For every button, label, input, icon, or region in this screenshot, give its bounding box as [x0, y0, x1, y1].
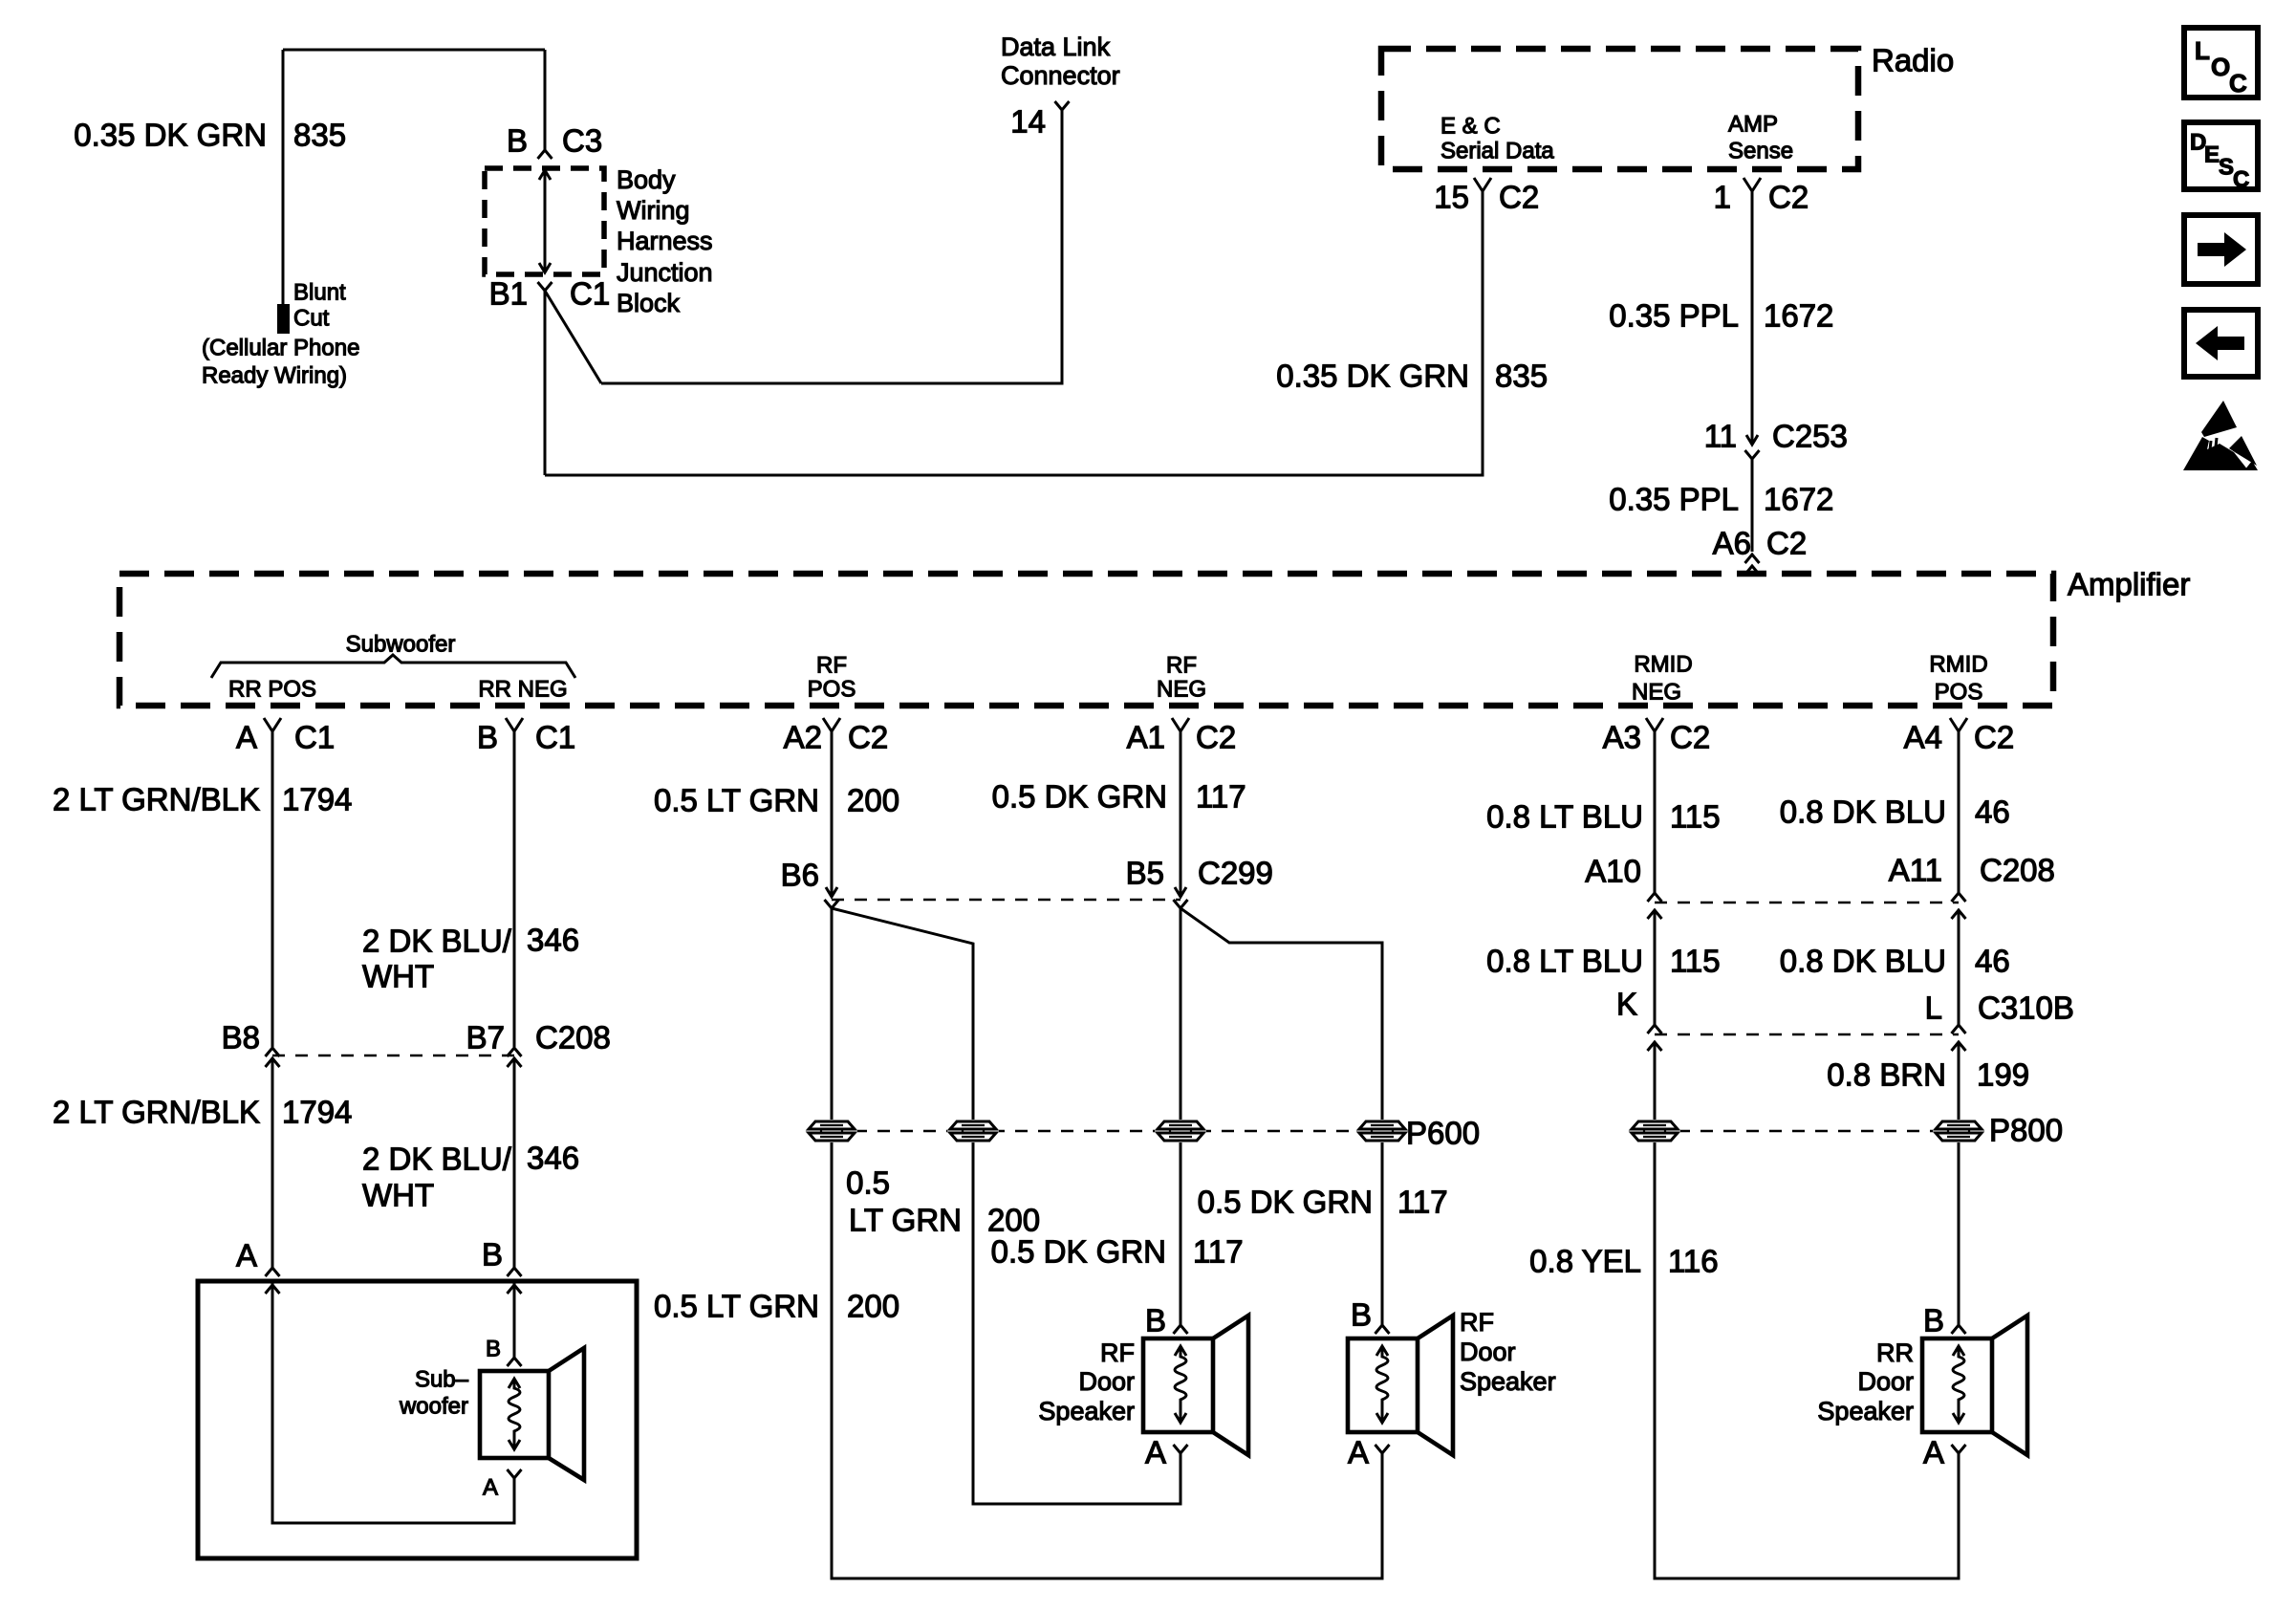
svg-text:RF: RF [1166, 653, 1197, 679]
svg-text:Speaker: Speaker [1817, 1397, 1914, 1425]
dashed connector line C310B [1655, 1033, 1959, 1035]
svg-text:C299: C299 [1198, 856, 1273, 891]
svg-text:C310B: C310B [1978, 990, 2074, 1026]
wire: AMP Sense 0.35 PPL lower [1751, 459, 1754, 552]
subwoofer driver box [480, 1371, 549, 1458]
RR speaker cone [1992, 1316, 2027, 1455]
svg-text:B5: B5 [1126, 856, 1164, 891]
svg-text:C: C [2229, 69, 2247, 98]
svg-text:A: A [1145, 1435, 1166, 1470]
subwoofer cone [549, 1348, 584, 1480]
subwoofer coil [509, 1381, 520, 1447]
Data Link Connector pin 14 fork [1055, 101, 1070, 110]
svg-text:B6: B6 [781, 858, 819, 893]
svg-text:835: 835 [1495, 359, 1548, 394]
svg-text:Serial Data: Serial Data [1440, 139, 1554, 164]
svg-text:0.5 DK GRN: 0.5 DK GRN [992, 779, 1167, 815]
svg-text:B: B [507, 123, 528, 159]
svg-text:O: O [2211, 53, 2230, 81]
svg-text:B: B [486, 1337, 501, 1362]
svg-text:RR NEG: RR NEG [478, 677, 567, 703]
svg-text:L: L [2195, 36, 2210, 65]
inline connector 11 C253 [1746, 435, 1758, 445]
wire: B1 down to radio feed [544, 291, 547, 475]
svg-text:2 LT GRN/BLK: 2 LT GRN/BLK [53, 782, 260, 817]
svg-text:LT GRN: LT GRN [849, 1203, 962, 1238]
svg-text:200: 200 [847, 1289, 899, 1324]
wire: AMP Sense 0.35 PPL upper [1751, 191, 1754, 445]
speaker 1 pin A fork [1174, 1445, 1188, 1453]
svg-text:0.8 LT BLU: 0.8 LT BLU [1486, 944, 1643, 979]
svg-text:0.5 LT GRN: 0.5 LT GRN [654, 1289, 819, 1324]
svg-text:C2: C2 [1768, 180, 1809, 215]
amp pin A4 C2 fork [1950, 718, 1967, 731]
inline connector L C310B [1952, 1025, 1966, 1033]
svg-text:1672: 1672 [1764, 482, 1833, 517]
svg-text:0.5 LT GRN: 0.5 LT GRN [654, 783, 819, 818]
grommet P600 wire 200 branch [947, 1120, 999, 1142]
radio pin 1 C2 fork [1744, 178, 1761, 191]
wire RR NEG 2 DK BLU/WHT upper [513, 731, 516, 1047]
svg-text:2 DK BLU/: 2 DK BLU/ [362, 1142, 512, 1177]
speaker 1 pin B fork [1174, 1325, 1188, 1334]
svg-text:0.8 BRN: 0.8 BRN [1827, 1057, 1946, 1093]
svg-text:C1: C1 [570, 276, 610, 312]
svg-text:NEG: NEG [1632, 680, 1681, 706]
inline connector B6 [826, 887, 837, 897]
svg-text:14: 14 [1010, 104, 1046, 140]
svg-text:RR POS: RR POS [228, 677, 316, 703]
svg-text:RR: RR [1876, 1338, 1914, 1367]
wire: diagonal B1 to DLC run [545, 291, 601, 383]
svg-text:Cut: Cut [293, 306, 330, 332]
svg-text:A: A [236, 1238, 257, 1273]
dashed connector line C208 (right) [1655, 902, 1959, 903]
wire RMID NEG 0.8 LT BLU mid [1654, 910, 1657, 1025]
svg-text:E & C: E & C [1440, 114, 1501, 140]
grommet P800 wire 116 [1629, 1120, 1680, 1142]
Radio dashed box [1381, 49, 1858, 169]
svg-text:346: 346 [527, 923, 579, 958]
svg-text:A: A [1348, 1435, 1369, 1470]
wire: drop to junction block pin B [544, 50, 547, 150]
wire RMID POS 0.8 DK BLU mid [1958, 910, 1960, 1025]
svg-text:117: 117 [1397, 1185, 1448, 1220]
svg-text:Block: Block [617, 289, 681, 317]
wire B6 branch to first RF speaker [832, 908, 1180, 1504]
svg-text:RMID: RMID [1634, 652, 1692, 678]
svg-text:C2: C2 [1670, 720, 1710, 755]
svg-text:0.35 DK GRN: 0.35 DK GRN [1276, 359, 1469, 394]
svg-text:RF: RF [1460, 1308, 1494, 1337]
svg-text:0.5 DK GRN: 0.5 DK GRN [1198, 1185, 1373, 1220]
svg-text:Sub–: Sub– [415, 1367, 469, 1393]
svg-text:Speaker: Speaker [1460, 1367, 1556, 1396]
speaker 2 box [1348, 1338, 1418, 1432]
wire B5 straight down 0.5 DK GRN [1180, 908, 1182, 1325]
svg-text:L: L [1925, 990, 1942, 1026]
amp pin A1 C2 fork [1172, 718, 1189, 731]
svg-text:RMID: RMID [1929, 652, 1987, 678]
brace [211, 655, 575, 678]
amp pin A2 C2 fork [823, 718, 840, 731]
svg-text:Speaker: Speaker [1038, 1397, 1135, 1425]
speaker 1 box [1143, 1338, 1213, 1432]
svg-text:835: 835 [293, 118, 346, 153]
svg-text:200: 200 [987, 1203, 1040, 1238]
svg-text:C2: C2 [1196, 720, 1236, 755]
svg-text:B1: B1 [489, 276, 528, 312]
svg-text:POS: POS [808, 677, 856, 703]
svg-text:117: 117 [1196, 779, 1246, 815]
inline connector K [1648, 1025, 1662, 1033]
svg-text:0.5: 0.5 [846, 1165, 890, 1201]
svg-text:Harness: Harness [617, 227, 713, 255]
svg-text:C3: C3 [562, 123, 602, 159]
svg-text:0.8 DK BLU: 0.8 DK BLU [1780, 794, 1946, 830]
svg-text:A: A [1923, 1435, 1944, 1470]
wire: top horizontal 835 run [283, 49, 545, 52]
svg-text:A1: A1 [1127, 720, 1165, 755]
svg-text:Body: Body [617, 165, 676, 194]
svg-text:15: 15 [1434, 180, 1469, 215]
amp pin A3 C2 fork [1646, 718, 1663, 731]
svg-text:346: 346 [527, 1141, 579, 1176]
svg-text:1794: 1794 [282, 1095, 352, 1130]
grommet P600 wire 200 [806, 1120, 857, 1142]
svg-text:AMP: AMP [1728, 112, 1778, 138]
svg-text:woofer: woofer [399, 1394, 468, 1420]
svg-text:46: 46 [1975, 794, 2010, 830]
svg-text:B7: B7 [466, 1020, 505, 1055]
wire B inside enclosure [513, 1283, 516, 1358]
blunt cut terminal [277, 304, 290, 334]
wire: horizontal run to radio pin 15 [545, 191, 1483, 475]
svg-text:200: 200 [847, 783, 899, 818]
svg-text:46: 46 [1975, 944, 2010, 979]
inline connector A10 [1648, 893, 1662, 902]
svg-text:C1: C1 [294, 720, 335, 755]
svg-text:C208: C208 [1980, 853, 2055, 888]
svg-text:C1: C1 [535, 720, 575, 755]
subwoofer enclosure box [198, 1281, 637, 1558]
svg-text:POS: POS [1935, 680, 1983, 706]
speaker 2 pin A fork [1375, 1445, 1390, 1453]
junction block internal wire with arrows [544, 170, 547, 272]
svg-text:Ready Wiring): Ready Wiring) [202, 363, 347, 389]
svg-text:Door: Door [1460, 1338, 1516, 1366]
svg-text:S: S [2219, 155, 2234, 181]
svg-text:Door: Door [1857, 1367, 1914, 1396]
svg-text:(Cellular Phone: (Cellular Phone [202, 336, 359, 361]
svg-text:2 LT GRN/BLK: 2 LT GRN/BLK [53, 1095, 260, 1130]
svg-text:C253: C253 [1772, 419, 1848, 454]
amp pin A C1 fork [264, 718, 281, 731]
subwoofer speaker pin B [508, 1358, 522, 1366]
svg-text:C2: C2 [1974, 720, 2014, 755]
svg-text:0.5 DK GRN: 0.5 DK GRN [991, 1234, 1166, 1270]
svg-text:WHT: WHT [362, 959, 434, 994]
svg-text:Subwoofer: Subwoofer [346, 632, 456, 658]
svg-text:Wiring: Wiring [617, 196, 690, 225]
svg-text:C2: C2 [1766, 526, 1807, 561]
svg-text:B: B [477, 720, 498, 755]
ESD sensitive symbol [2183, 401, 2258, 470]
svg-text:0.8 DK BLU: 0.8 DK BLU [1780, 944, 1946, 979]
svg-text:0.8 YEL: 0.8 YEL [1529, 1244, 1641, 1279]
svg-text:1794: 1794 [282, 782, 352, 817]
svg-text:P600: P600 [1406, 1116, 1480, 1151]
svg-text:Data Link: Data Link [1001, 33, 1111, 61]
grommet row P800 [1655, 1130, 1959, 1132]
svg-text:Junction: Junction [617, 258, 713, 287]
pin B1 C1 fork [538, 282, 552, 291]
Body Wiring Harness Junction Block (dashed box) [485, 168, 604, 274]
speaker 2 pin B fork [1375, 1325, 1390, 1334]
wire B5 branch to second RF speaker [1180, 908, 1382, 1325]
svg-text:Blunt: Blunt [293, 280, 346, 306]
wire RMID NEG 0.8 LT BLU upper [1654, 731, 1657, 893]
svg-text:Connector: Connector [1001, 61, 1120, 90]
subwoofer pin A fork [266, 1268, 280, 1276]
svg-text:Amplifier: Amplifier [2068, 567, 2190, 602]
svg-text:RF: RF [1100, 1338, 1135, 1367]
svg-text:A: A [236, 720, 257, 755]
grommet P600 wire 117 [1155, 1120, 1206, 1142]
svg-text:B: B [1351, 1297, 1372, 1333]
svg-text:A6: A6 [1713, 526, 1751, 561]
svg-text:A4: A4 [1904, 720, 1942, 755]
svg-text:116: 116 [1668, 1244, 1719, 1279]
wire B6 straight down 0.5 LT GRN [832, 908, 1382, 1578]
DESC icon [2184, 122, 2258, 193]
svg-text:117: 117 [1193, 1234, 1244, 1270]
speaker 1 cone [1213, 1316, 1248, 1455]
RR speaker box [1922, 1338, 1992, 1432]
svg-text:0.35 PPL: 0.35 PPL [1609, 482, 1739, 517]
wire RF NEG 0.5 DK GRN upper [1180, 731, 1182, 897]
inline connector B8 [266, 1048, 280, 1056]
RR speaker pin A fork [1952, 1445, 1966, 1453]
svg-text:115: 115 [1670, 944, 1721, 979]
grommet P800 wire 199 [1933, 1120, 1984, 1142]
wire RR NEG lower [513, 1058, 516, 1268]
RR speaker pin B fork [1952, 1325, 1966, 1334]
dashed connector line C208 [272, 1055, 514, 1056]
svg-text:2 DK BLU/: 2 DK BLU/ [362, 924, 512, 959]
svg-text:11: 11 [1704, 419, 1737, 454]
svg-text:B: B [1145, 1303, 1166, 1338]
LOC icon [2184, 28, 2258, 98]
wire: horizontal run to Data Link Connector [601, 110, 1062, 383]
speaker 2 coil [1376, 1348, 1388, 1421]
wire RF POS 0.5 LT GRN upper [831, 731, 834, 897]
inline connector B5 C299 [1175, 887, 1186, 897]
svg-text:C2: C2 [848, 720, 888, 755]
svg-text:RF: RF [816, 653, 847, 679]
svg-text:1672: 1672 [1764, 298, 1833, 334]
svg-text:A10: A10 [1585, 854, 1641, 889]
svg-text:115: 115 [1670, 799, 1721, 835]
svg-text:WHT: WHT [362, 1178, 434, 1213]
svg-text:C: C [2233, 167, 2249, 193]
wire RMID POS 0.8 DK BLU upper [1958, 731, 1960, 893]
inline connector B7 C208 [508, 1048, 522, 1056]
svg-text:0.35 PPL: 0.35 PPL [1609, 298, 1739, 334]
svg-text:C2: C2 [1499, 180, 1539, 215]
svg-text:A3: A3 [1603, 720, 1641, 755]
amp pin B C1 fork [506, 718, 523, 731]
wire RR POS 2 LT GRN/BLK upper [271, 731, 274, 1047]
svg-text:0.35 DK GRN: 0.35 DK GRN [74, 118, 267, 153]
svg-text:C208: C208 [535, 1020, 611, 1055]
svg-text:P800: P800 [1989, 1113, 2063, 1148]
RR speaker coil [1953, 1348, 1964, 1421]
grommet P600 wire 117 branch [1356, 1120, 1408, 1142]
speaker 2 cone [1418, 1316, 1453, 1455]
subwoofer speaker pin A [508, 1469, 522, 1478]
pin A6 C2 chevrons into amplifier [1745, 555, 1760, 563]
svg-text:Radio: Radio [1872, 43, 1954, 78]
wire RR POS lower [271, 1058, 274, 1268]
grommet row P600 [832, 1130, 1382, 1132]
svg-text:B: B [482, 1237, 503, 1273]
svg-text:Door: Door [1078, 1367, 1135, 1396]
Amplifier dashed box [119, 574, 2053, 706]
inline connector A11 C208 [1952, 893, 1966, 902]
back arrow icon [2184, 310, 2258, 377]
forward arrow icon [2184, 215, 2258, 284]
svg-text:A2: A2 [784, 720, 822, 755]
svg-text:B8: B8 [222, 1020, 260, 1055]
wire RMID POS 0.8 BRN lower [1958, 1042, 1960, 1325]
svg-text:A: A [483, 1475, 498, 1501]
svg-text:A11: A11 [1889, 853, 1942, 888]
svg-text:199: 199 [1977, 1057, 2029, 1093]
subwoofer pin B fork [508, 1268, 522, 1276]
svg-text:E: E [2204, 142, 2220, 168]
svg-text:NEG: NEG [1157, 677, 1206, 703]
wire: blunt-cut drop [282, 50, 285, 304]
svg-text:K: K [1616, 987, 1637, 1022]
pin B C3 fork [538, 150, 552, 159]
svg-text:0.8 LT BLU: 0.8 LT BLU [1486, 799, 1643, 835]
dashed connector line C299 [832, 899, 1180, 901]
svg-text:Sense: Sense [1728, 139, 1793, 164]
speaker 1 coil [1175, 1348, 1186, 1421]
svg-text:B: B [1923, 1303, 1944, 1338]
wire RMID NEG 0.8 YEL lower [1655, 1042, 1959, 1578]
radio pin 15 C2 fork [1474, 178, 1491, 191]
svg-text:1: 1 [1714, 180, 1731, 215]
wire A inside enclosure [272, 1283, 514, 1523]
